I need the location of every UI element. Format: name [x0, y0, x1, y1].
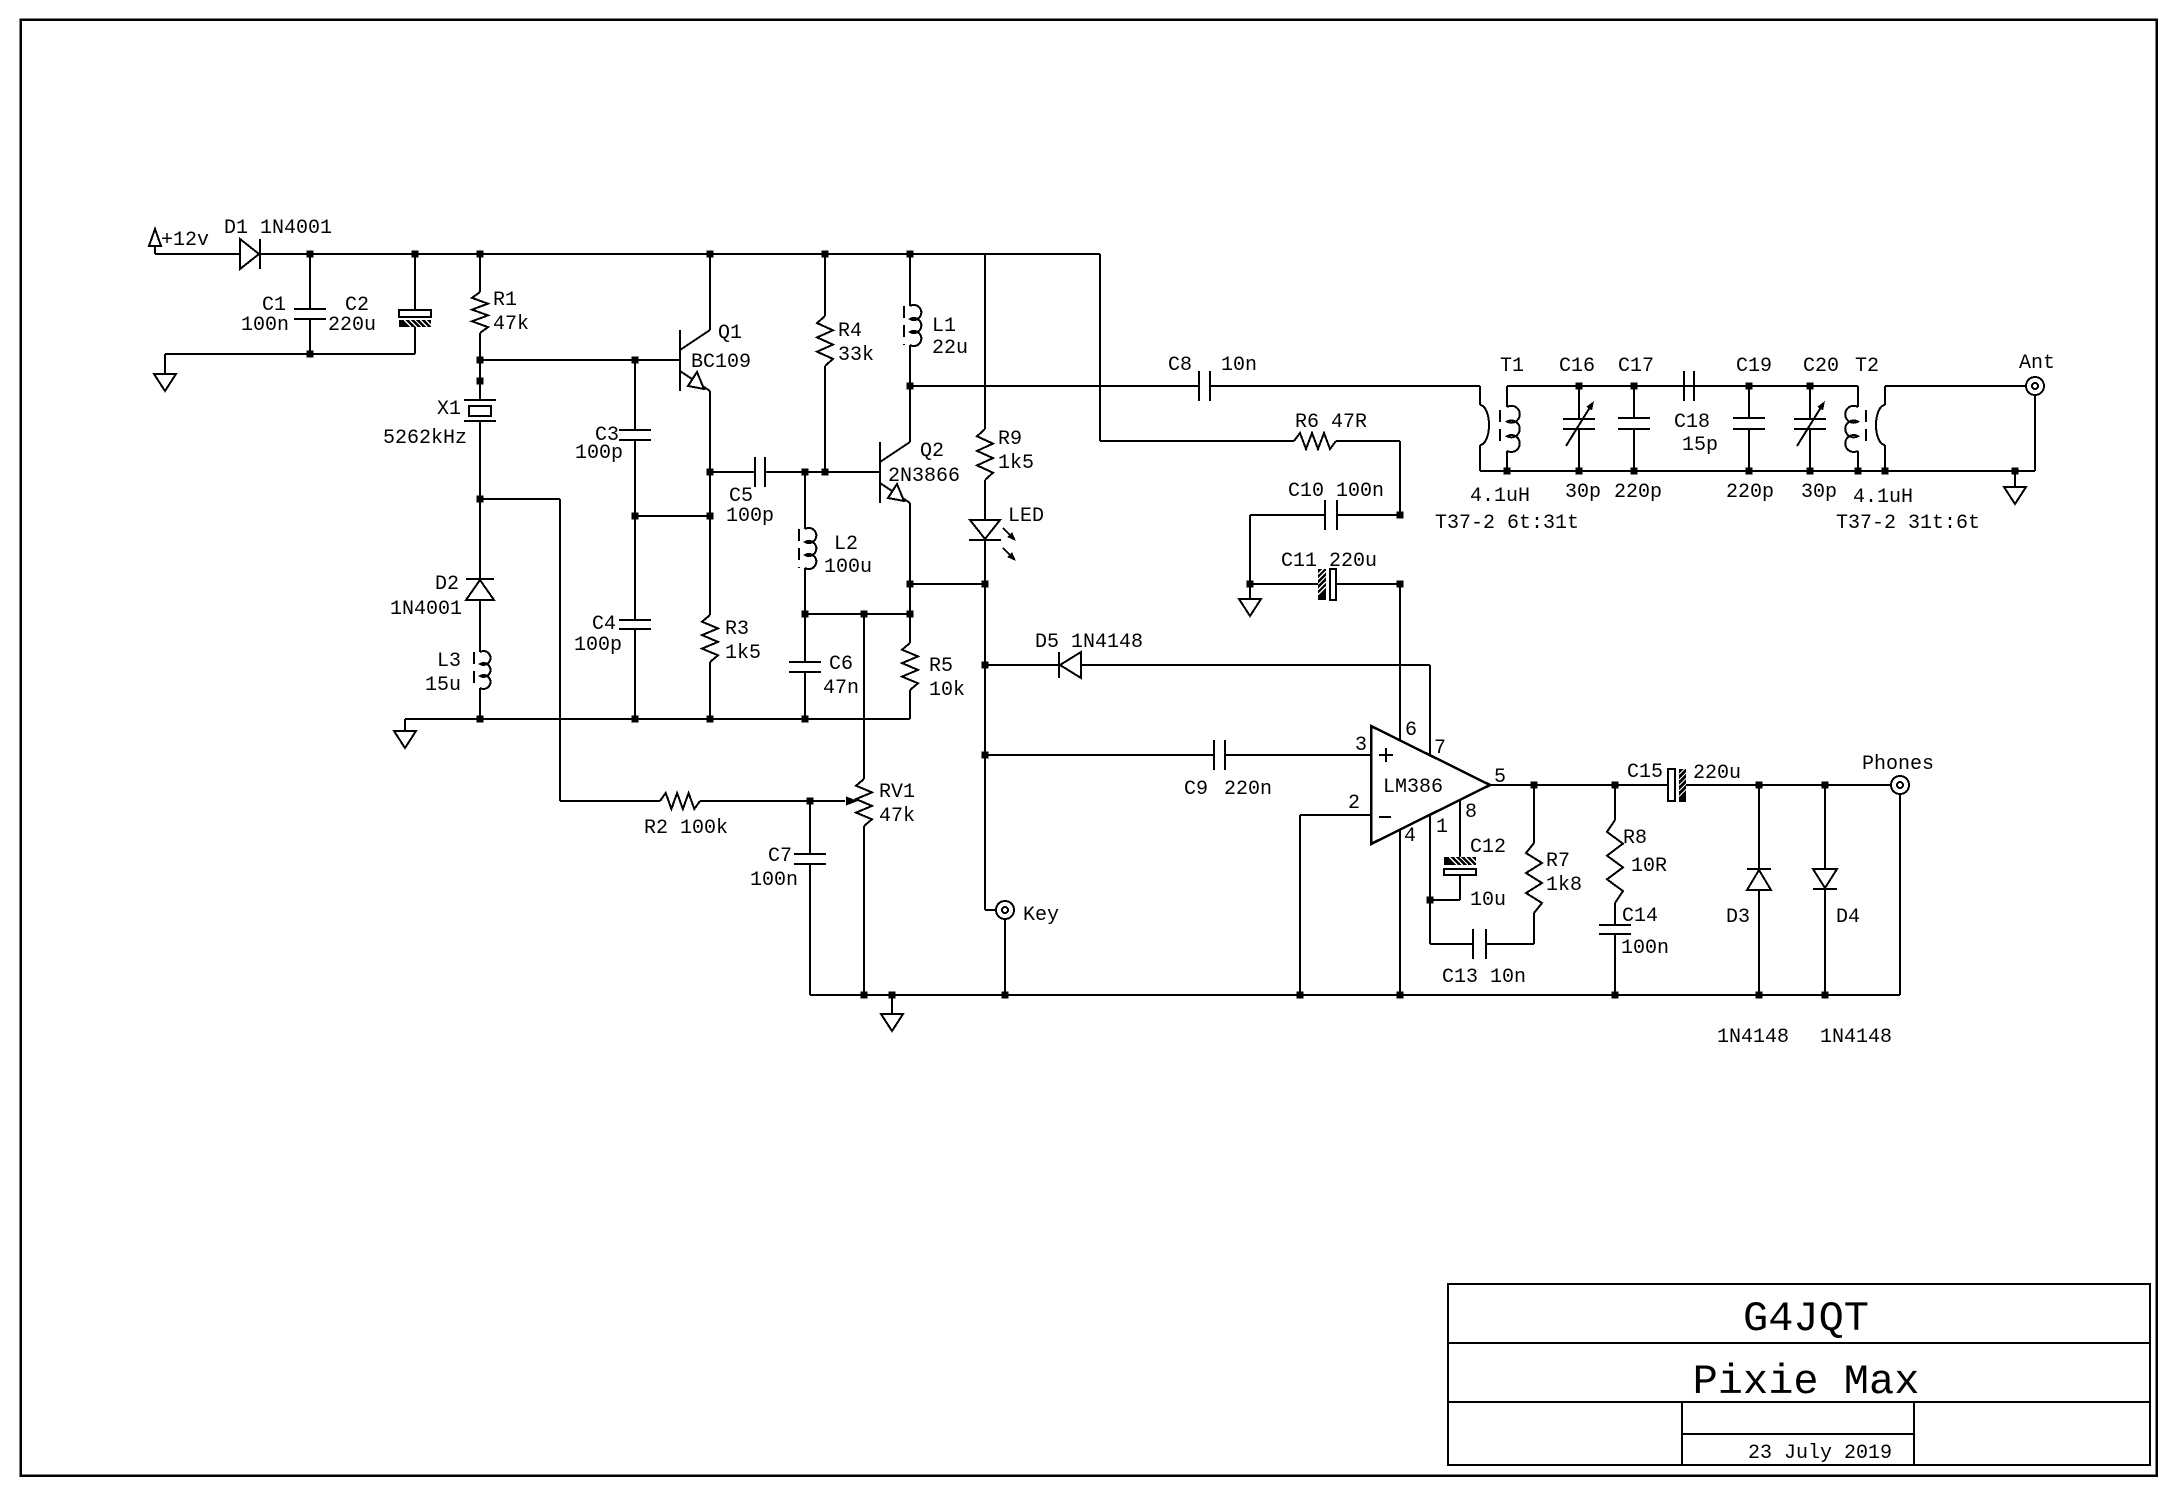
inductor L2 100u [804, 472, 806, 529]
junction C6 bottom [802, 716, 809, 723]
junction C11 left [1247, 581, 1254, 588]
junction C11 right [1397, 581, 1404, 588]
svg-text:L3: L3 [437, 650, 461, 673]
svg-text:4: 4 [1404, 825, 1416, 848]
inductor L1 22u [909, 254, 911, 306]
junction R7 top [1531, 782, 1538, 789]
svg-text:1N4148: 1N4148 [1717, 1026, 1789, 1049]
junction Q2 emitter to key line [907, 581, 914, 588]
wire top rail drop [1099, 254, 1101, 441]
resistor R6 47R [1294, 433, 1336, 449]
capacitor C3 100p [634, 360, 636, 430]
junction C7 top [807, 798, 814, 805]
junction pin1 C12 [1427, 897, 1434, 904]
svg-text:C16: C16 [1559, 355, 1595, 378]
svg-text:220n: 220n [1224, 778, 1272, 801]
svg-text:C9: C9 [1184, 778, 1208, 801]
svg-text:G4JQT: G4JQT [1743, 1295, 1869, 1343]
svg-text:C6: C6 [829, 653, 853, 676]
ground symbol audio [891, 995, 893, 1014]
pin 2 minus input [1379, 816, 1391, 818]
resistor R2 100k [560, 800, 660, 802]
svg-text:Q2: Q2 [920, 440, 944, 463]
junction L1 top [907, 251, 914, 258]
junction C1 bottom [307, 351, 314, 358]
ground symbol C11 [1249, 584, 1251, 599]
wire branch to R2 vertical [559, 499, 561, 801]
transformer T1 primary 6t [1479, 386, 1481, 405]
wire ground run C1 C2 [165, 353, 415, 355]
svg-text:2: 2 [1348, 792, 1360, 815]
svg-text:1: 1 [1436, 816, 1448, 839]
svg-text:C15: C15 [1627, 761, 1663, 784]
wire key column lower [984, 755, 986, 910]
wire phones drop [1899, 794, 1901, 995]
svg-text:15p: 15p [1682, 434, 1718, 457]
LED light arrows [1003, 528, 1013, 538]
wire R6 to amp supply [1336, 440, 1400, 442]
svg-text:220u: 220u [328, 314, 376, 337]
svg-text:33k: 33k [838, 344, 874, 367]
svg-text:15u: 15u [425, 674, 461, 697]
wire Q2 emitter to R5 [909, 584, 911, 614]
wire Q2 emitter [909, 503, 911, 584]
diode D5 1N4148 [985, 664, 1059, 666]
svg-text:R1: R1 [493, 289, 517, 312]
svg-text:D1 1N4001: D1 1N4001 [224, 217, 332, 240]
junction C2 top [412, 251, 419, 258]
svg-text:5262kHz: 5262kHz [383, 427, 467, 450]
junction Q2 emitter node [907, 611, 914, 618]
junction L2 bottom [802, 611, 809, 618]
wire key column mid [984, 665, 986, 755]
svg-text:23 July 2019: 23 July 2019 [1748, 1442, 1892, 1465]
capacitor C13 10n [1430, 943, 1473, 945]
wire C3-C4 node to Q1 emitter [635, 515, 710, 517]
junction C16 top [1576, 383, 1583, 390]
potentiometer RV1 47k wiper arrow [846, 796, 858, 805]
connector Ant [2026, 377, 2044, 395]
junction C19 bottom [1746, 468, 1753, 475]
junction C16 bottom [1576, 468, 1583, 475]
title block frame [1448, 1284, 2150, 1465]
potentiometer RV1 47k [863, 614, 865, 779]
junction T2 secondary bottom [1855, 468, 1862, 475]
wire key column upper [984, 584, 986, 665]
svg-text:10n: 10n [1221, 354, 1257, 377]
junction C9 tap [982, 752, 989, 759]
svg-text:220p: 220p [1614, 481, 1662, 504]
junction C4 bottom [632, 716, 639, 723]
svg-text:R2 100k: R2 100k [644, 817, 728, 840]
svg-text:C10 100n: C10 100n [1288, 480, 1384, 503]
svg-text:7: 7 [1434, 737, 1446, 760]
wire Q2 collector [909, 386, 911, 442]
wire key jog [985, 909, 996, 911]
svg-text:1k5: 1k5 [725, 642, 761, 665]
transformer T1 secondary 31t [1506, 386, 1508, 407]
svg-text:30p: 30p [1565, 481, 1601, 504]
wire X1 bottom lead [479, 421, 481, 499]
junction D3 top [1756, 782, 1763, 789]
capacitor C12 10u electrolytic [1444, 857, 1476, 865]
wire antenna drop [2034, 395, 2036, 471]
junction C17 top [1631, 383, 1638, 390]
junction D3 bottom [1756, 992, 1763, 999]
wire +12v input [155, 253, 240, 255]
junction Q1 emitter wire [707, 513, 714, 520]
resistor R7 1k8 [1533, 785, 1535, 843]
svg-text:100n: 100n [750, 869, 798, 892]
inductor L3 15u [480, 651, 490, 689]
capacitor C11 220u electrolytic [1250, 583, 1318, 585]
capacitor C5 100p [710, 471, 755, 473]
svg-text:100u: 100u [824, 556, 872, 579]
junction C19 top [1746, 383, 1753, 390]
wire T2 to antenna [1885, 385, 2026, 387]
svg-text:1N4001: 1N4001 [390, 598, 462, 621]
junction antenna ground [2012, 468, 2019, 475]
capacitor C19 220p [1748, 386, 1750, 418]
svg-text:10R: 10R [1631, 855, 1667, 878]
svg-text:C8: C8 [1168, 354, 1192, 377]
svg-text:R8: R8 [1623, 827, 1647, 850]
svg-text:Key: Key [1023, 904, 1059, 927]
svg-text:100n: 100n [1621, 937, 1669, 960]
wire pin8 stub [1459, 800, 1461, 857]
capacitor C1 100n [309, 254, 311, 309]
svg-text:47k: 47k [493, 313, 529, 336]
svg-text:C4: C4 [592, 613, 616, 636]
svg-text:X1: X1 [437, 398, 461, 421]
junction C17 bottom [1631, 468, 1638, 475]
LED indicator [970, 520, 1000, 539]
trimmer capacitor C16 30p [1578, 386, 1580, 419]
svg-text:T2: T2 [1855, 355, 1879, 378]
crystal X1 5262kHz [464, 399, 496, 401]
svg-text:C13 10n: C13 10n [1442, 966, 1526, 989]
svg-text:LED: LED [1008, 505, 1044, 528]
wire Q1 emitter lower [709, 472, 711, 516]
junction pin4 bottom [1397, 992, 1404, 999]
junction RV1 bottom [861, 992, 868, 999]
svg-text:D5 1N4148: D5 1N4148 [1035, 631, 1143, 654]
junction C3 top [632, 357, 639, 364]
svg-text:47k: 47k [879, 805, 915, 828]
svg-text:6: 6 [1405, 719, 1417, 742]
resistor R8 10R [1614, 785, 1616, 820]
svg-text:R3: R3 [725, 618, 749, 641]
wire C8 to T1 [1210, 385, 1480, 387]
svg-text:8: 8 [1465, 801, 1477, 824]
svg-text:C20: C20 [1803, 355, 1839, 378]
node X1 top dot [477, 378, 484, 385]
svg-text:R4: R4 [838, 320, 862, 343]
junction C3 bottom wire [632, 513, 639, 520]
resistor R4 33k [824, 254, 826, 316]
junction C20 top [1807, 383, 1814, 390]
svg-text:T37-2 31t:6t: T37-2 31t:6t [1836, 512, 1980, 535]
junction X1 to R2 branch [477, 496, 484, 503]
svg-text:L1: L1 [932, 315, 956, 338]
junction D4 top [1822, 782, 1829, 789]
svg-text:LM386: LM386 [1383, 776, 1443, 799]
wire PA output node [910, 385, 1199, 387]
wire amp output [1490, 784, 1670, 786]
svg-text:100p: 100p [575, 442, 623, 465]
diode D2 1N4001 [479, 499, 481, 579]
svg-text:D3: D3 [1726, 906, 1750, 929]
ground symbol antenna [2014, 471, 2016, 487]
svg-text:47n: 47n [823, 677, 859, 700]
transformer T1 core [1499, 410, 1501, 448]
wire C10 left drop [1249, 515, 1251, 584]
resistor R9 1k5 [984, 254, 986, 429]
connector Phones [1891, 776, 1909, 794]
transformer T2 primary 6t [1884, 386, 1886, 405]
svg-text:30p: 30p [1801, 481, 1837, 504]
junction D5 tap [982, 662, 989, 669]
junction key bottom [1002, 992, 1009, 999]
connector Key [996, 901, 1014, 919]
diode D3 1N4148 [1758, 785, 1760, 869]
junction L1 bottom PA node [907, 383, 914, 390]
ground symbol oscillator [404, 719, 406, 731]
junction D4 bottom [1822, 992, 1829, 999]
svg-text:R7: R7 [1546, 850, 1570, 873]
capacitor C6 47n [804, 614, 806, 662]
trimmer capacitor C20 30p [1809, 386, 1811, 419]
svg-text:3: 3 [1355, 734, 1367, 757]
wire emitter node Q2 [805, 613, 910, 615]
wire oscillator ground rail [405, 718, 910, 720]
wire Q1 emitter [709, 391, 711, 472]
transistor Q1 BC109 [679, 330, 681, 391]
junction C10 right [1397, 512, 1404, 519]
svg-text:1k5: 1k5 [998, 452, 1034, 475]
diode D4 1N4148 [1824, 785, 1826, 869]
svg-text:L2: L2 [834, 533, 858, 556]
wire filter top rail [1507, 385, 1858, 387]
junction LED bottom key node [982, 581, 989, 588]
node R1 bottom junction [477, 357, 484, 364]
transistor Q2 2N3866 [879, 442, 881, 503]
wire pin2 drop [1299, 815, 1301, 995]
pin 3 plus input [1379, 754, 1393, 756]
junction L2 top [802, 469, 809, 476]
resistor R1 47k [479, 254, 481, 292]
svg-text:1N4148: 1N4148 [1820, 1026, 1892, 1049]
wire X1 top lead [479, 360, 481, 400]
wire L2 node to RV1 [805, 613, 864, 615]
wire bottom ground rail [810, 994, 1900, 996]
capacitor C7 100n [809, 801, 811, 854]
capacitor C2 220u electrolytic [414, 254, 416, 310]
wire D5 to pin7 [1429, 665, 1431, 755]
junction T2 primary bottom [1882, 468, 1889, 475]
svg-text:C19: C19 [1736, 355, 1772, 378]
node +12v supply arrow [149, 229, 161, 246]
wire branch to R2 horizontal [480, 498, 560, 500]
capacitor C4 100p [634, 516, 636, 620]
wire to R6 [1100, 440, 1294, 442]
junction ground stub [889, 992, 896, 999]
svg-text:T1: T1 [1500, 355, 1524, 378]
svg-text:+12v: +12v [161, 229, 209, 252]
svg-text:C12: C12 [1470, 836, 1506, 859]
transformer T2 core [1865, 410, 1867, 448]
capacitor C8 10n [1198, 371, 1200, 401]
svg-text:1k8: 1k8 [1546, 874, 1582, 897]
junction C1 top [307, 251, 314, 258]
svg-text:100p: 100p [574, 634, 622, 657]
svg-text:10k: 10k [929, 679, 965, 702]
diode D1 1N4001 [240, 239, 259, 269]
wire pin1 stub [1429, 815, 1431, 944]
wire pin2 horizontal [1300, 814, 1371, 816]
junction Q1 collector top [707, 251, 714, 258]
wire amp supply drop [1399, 441, 1401, 515]
wire pin4 drop [1399, 830, 1401, 995]
junction R4 bottom [822, 469, 829, 476]
wire filter bottom rail [1480, 470, 2035, 472]
svg-text:100p: 100p [726, 505, 774, 528]
svg-text:R9: R9 [998, 428, 1022, 451]
wire pin7 stub [1429, 665, 1431, 755]
svg-text:C17: C17 [1618, 355, 1654, 378]
svg-text:Q1: Q1 [718, 322, 742, 345]
wire C5 to Q2 base [805, 471, 880, 473]
junction T1 secondary bottom [1504, 468, 1511, 475]
junction C14 bottom [1612, 992, 1619, 999]
capacitor C9 220n [985, 754, 1214, 756]
svg-text:100n: 100n [241, 314, 289, 337]
ground symbol supply [164, 354, 166, 374]
svg-text:BC109: BC109 [691, 351, 751, 374]
wire key to ground rail [1004, 919, 1006, 995]
capacitor C10 100n [1250, 514, 1325, 516]
svg-text:220p: 220p [1726, 481, 1774, 504]
wire supply to pin6 [1399, 584, 1401, 740]
svg-text:220u: 220u [1693, 762, 1741, 785]
svg-text:D4: D4 [1836, 906, 1860, 929]
wire ground stub left [309, 319, 311, 354]
junction pin2 bottom [1297, 992, 1304, 999]
junction C5 tap [707, 469, 714, 476]
wire LED to Q2 emitter [910, 583, 985, 585]
resistor R5 10k [909, 614, 911, 643]
resistor R3 1k5 [709, 516, 711, 615]
capacitor C15 220u electrolytic [1668, 769, 1675, 801]
capacitor C17 220p [1633, 386, 1635, 418]
svg-text:Pixie Max: Pixie Max [1693, 1358, 1920, 1406]
svg-text:R5: R5 [929, 655, 953, 678]
svg-text:Ant: Ant [2019, 352, 2055, 375]
wire C13 to R7 bottom [1533, 913, 1535, 944]
svg-text:Phones: Phones [1862, 753, 1934, 776]
transformer T2 secondary 31t [1857, 386, 1859, 407]
svg-text:D2: D2 [435, 573, 459, 596]
junction R4 top [822, 251, 829, 258]
junction RV1 top [861, 611, 868, 618]
svg-text:C11 220u: C11 220u [1281, 550, 1377, 573]
capacitor C14 100n [1599, 924, 1631, 926]
op-amp U1 LM386 [1371, 726, 1490, 844]
junction R8 top [1612, 782, 1619, 789]
junction L3 bottom [477, 716, 484, 723]
svg-text:22u: 22u [932, 337, 968, 360]
wire R1 to Q1 base [480, 359, 680, 361]
capacitor C18 15p [1683, 371, 1685, 401]
svg-text:2N3866: 2N3866 [888, 465, 960, 488]
svg-text:4.1uH: 4.1uH [1853, 486, 1913, 509]
svg-text:10u: 10u [1470, 889, 1506, 912]
wire Q1 collector [709, 254, 711, 330]
svg-text:C18: C18 [1674, 411, 1710, 434]
junction R1 top [477, 251, 484, 258]
junction C20 bottom [1807, 468, 1814, 475]
svg-text:4.1uH: 4.1uH [1470, 485, 1530, 508]
svg-text:C14: C14 [1622, 905, 1658, 928]
junction R3 bottom [707, 716, 714, 723]
wire +12V rail [260, 253, 1100, 255]
svg-text:C7: C7 [768, 845, 792, 868]
svg-text:R6 47R: R6 47R [1295, 411, 1367, 434]
svg-text:RV1: RV1 [879, 781, 915, 804]
svg-text:T37-2 6t:31t: T37-2 6t:31t [1435, 512, 1579, 535]
